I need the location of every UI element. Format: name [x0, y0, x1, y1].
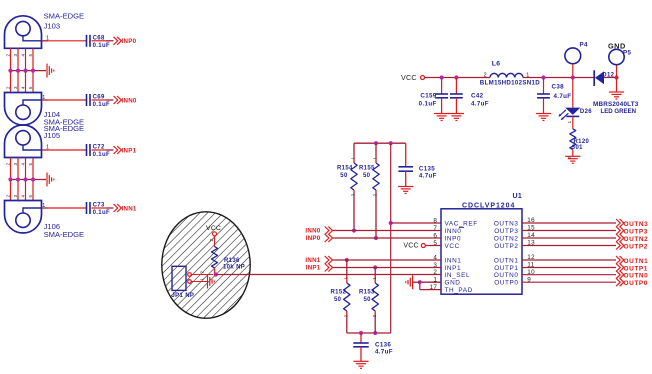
svg-text:SMA-EDGE: SMA-EDGE [44, 230, 85, 239]
svg-text:C68: C68 [93, 35, 105, 41]
svg-text:BLM15HD102SN1D: BLM15HD102SN1D [480, 79, 540, 86]
svg-text:OUTN1: OUTN1 [494, 257, 519, 264]
svg-text:VCC: VCC [206, 225, 221, 232]
svg-text:VAC_REF: VAC_REF [445, 220, 478, 227]
svg-text:0.1uF: 0.1uF [419, 100, 437, 107]
svg-text:OUTN2: OUTN2 [494, 235, 519, 242]
svg-text:IN_SEL: IN_SEL [445, 272, 471, 279]
svg-text:50: 50 [364, 297, 372, 303]
svg-text:J105: J105 [44, 131, 60, 140]
svg-text:R136: R136 [224, 258, 240, 264]
svg-text:INP1: INP1 [122, 147, 137, 154]
svg-text:OUTP3: OUTP3 [494, 228, 518, 235]
svg-text:R154: R154 [337, 166, 353, 172]
svg-text:OUTP1: OUTP1 [494, 265, 518, 272]
svg-text:INP0: INP0 [445, 235, 462, 242]
svg-text:L6: L6 [492, 60, 501, 67]
svg-text:R153: R153 [359, 289, 375, 295]
svg-text:U1: U1 [513, 193, 523, 200]
svg-text:50: 50 [363, 173, 371, 179]
svg-text:D26: D26 [580, 109, 592, 115]
svg-text:C72: C72 [93, 145, 105, 151]
svg-text:OUTP0: OUTP0 [624, 280, 648, 287]
svg-text:2: 2 [484, 72, 487, 78]
svg-text:R152: R152 [331, 289, 347, 295]
svg-text:OUTN3: OUTN3 [494, 220, 519, 227]
svg-text:INP0: INP0 [122, 38, 137, 45]
svg-text:OUTN0: OUTN0 [494, 272, 519, 279]
svg-text:INN0: INN0 [122, 97, 137, 104]
svg-text:VCC: VCC [401, 73, 417, 82]
svg-text:OUTP2: OUTP2 [624, 243, 648, 250]
svg-text:INN1: INN1 [305, 257, 320, 264]
svg-text:4.7uF: 4.7uF [375, 348, 393, 355]
svg-text:C135: C135 [419, 165, 435, 172]
svg-text:0.1uF: 0.1uF [93, 152, 110, 158]
svg-text:50: 50 [340, 173, 348, 179]
svg-text:OUTP0: OUTP0 [494, 280, 518, 287]
svg-text:MBRS2040LT3: MBRS2040LT3 [593, 101, 639, 108]
svg-text:INP1: INP1 [445, 265, 462, 272]
svg-text:50: 50 [334, 297, 342, 303]
svg-text:TH_PAD: TH_PAD [445, 287, 473, 294]
svg-text:P5: P5 [623, 49, 631, 56]
svg-text:2: 2 [433, 269, 437, 276]
svg-text:0.1uF: 0.1uF [93, 210, 110, 216]
svg-text:CDCLVP1204: CDCLVP1204 [462, 202, 515, 209]
svg-text:SMA-EDGE: SMA-EDGE [44, 11, 85, 20]
svg-text:0.1uF: 0.1uF [93, 102, 110, 108]
svg-text:OUTP1: OUTP1 [624, 265, 648, 272]
svg-text:10k NP: 10k NP [223, 265, 245, 271]
svg-text:4.7uF: 4.7uF [419, 172, 437, 179]
svg-text:P4: P4 [580, 42, 588, 49]
svg-text:LED GREEN: LED GREEN [601, 108, 637, 115]
svg-text:C73: C73 [93, 203, 105, 209]
svg-text:4.7uF: 4.7uF [554, 93, 572, 100]
svg-text:C159: C159 [420, 93, 436, 100]
svg-text:OUTN3: OUTN3 [624, 221, 649, 228]
svg-text:0.1uF: 0.1uF [93, 43, 110, 49]
svg-text:D12: D12 [602, 73, 614, 79]
svg-text:INN1: INN1 [122, 205, 137, 212]
svg-text:C38: C38 [552, 83, 565, 90]
svg-text:INN0: INN0 [305, 227, 320, 234]
svg-text:INN0: INN0 [445, 228, 462, 235]
svg-text:JP1 NP: JP1 NP [172, 293, 195, 299]
svg-text:OUTP3: OUTP3 [624, 228, 648, 235]
svg-text:VCC: VCC [445, 243, 460, 250]
svg-text:C42: C42 [471, 93, 484, 100]
svg-text:GND: GND [445, 280, 461, 287]
svg-text:C69: C69 [93, 95, 105, 101]
svg-text:OUTN1: OUTN1 [624, 258, 649, 265]
svg-text:INP1: INP1 [306, 264, 321, 271]
svg-text:OUTN0: OUTN0 [624, 273, 649, 280]
svg-text:INN1: INN1 [445, 257, 462, 264]
svg-text:J103: J103 [44, 22, 60, 31]
svg-text:R155: R155 [359, 166, 375, 172]
svg-text:4.7uF: 4.7uF [471, 100, 489, 107]
svg-text:OUTN2: OUTN2 [624, 236, 649, 243]
svg-text:301: 301 [572, 145, 583, 151]
svg-text:8: 8 [433, 218, 437, 225]
svg-text:OUTP2: OUTP2 [494, 243, 518, 250]
svg-text:INP0: INP0 [306, 235, 321, 242]
svg-text:VCC: VCC [403, 243, 418, 250]
